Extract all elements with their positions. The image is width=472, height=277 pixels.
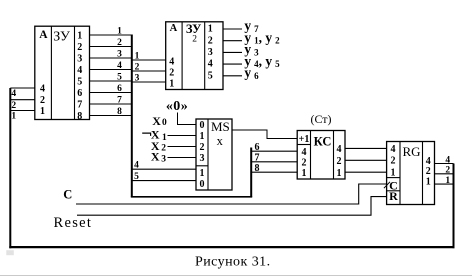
svg-text:R: R [389,189,398,203]
ZU2 right pin labels 1-5 [208,24,213,82]
ZU2 left pin labels 4,2,1 [169,57,174,90]
ZU1 address input wire 1 [10,110,35,112]
ZU2 output wire 5 [223,75,242,77]
multiplexer MS body [196,119,232,190]
feedback bus bottom horizontal [9,246,454,248]
svg-text:8: 8 [255,163,260,174]
svg-text:4: 4 [391,144,396,155]
svg-text:4: 4 [134,161,139,171]
svg-text:2: 2 [135,62,140,72]
output labels y [244,18,280,81]
svg-text:5: 5 [77,76,82,87]
combinational block KC body [297,131,345,180]
svg-text:3: 3 [117,49,122,59]
input label X2 [151,139,166,153]
ZU1 output wire 7 [90,103,132,105]
svg-text:A: A [170,23,178,34]
svg-text:0: 0 [162,118,167,128]
ZU1 left pin labels 4,2,1 [40,83,45,117]
svg-text:1: 1 [302,168,307,179]
input label X3 [151,150,166,165]
svg-text:2: 2 [337,156,342,167]
svg-text:ЗУ: ЗУ [186,22,201,36]
register RG body [387,142,435,205]
svg-text:1: 1 [337,168,342,179]
ZU1 input wire labels 4,2,1 [11,89,16,122]
RG output wire 1 [435,183,454,185]
svg-text:1: 1 [426,177,431,188]
svg-text:2: 2 [208,35,213,46]
MS label [211,119,230,148]
svg-text:«0»: «0» [166,99,188,114]
svg-text:1: 1 [77,30,82,41]
ZU1 output wire labels 1-8 [117,26,122,117]
input label not X1 [142,128,167,143]
svg-text:1: 1 [11,112,16,122]
svg-text:0: 0 [200,179,205,190]
ZU2 output wire 2 [223,40,242,42]
RG left pin labels 4,2,1 [391,144,396,179]
svg-text:Рисунок 31.: Рисунок 31. [195,255,271,270]
svg-text:0: 0 [200,120,205,131]
svg-text:3: 3 [135,73,140,83]
svg-text:1: 1 [208,24,213,35]
ZU1 output wire 2 [90,46,132,48]
KC left pin labels 4,2,1 [302,147,307,179]
bus vertical before KC [250,148,252,197]
svg-text:1: 1 [200,131,205,142]
svg-text:3: 3 [208,47,213,58]
ZU1 output wire 6 [90,92,132,94]
svg-text:1: 1 [391,168,396,179]
svg-text:4: 4 [337,144,342,155]
svg-text:2: 2 [161,143,166,153]
svg-text:4: 4 [40,83,45,94]
ZU1 output wire 5 [90,80,132,82]
RG output wire 4 [435,163,454,165]
svg-text:+1: +1 [299,134,310,145]
ZU1 output wire 1 [90,34,132,36]
svg-text:5: 5 [117,72,122,82]
svg-text:2: 2 [77,42,82,53]
svg-text:X: X [151,150,160,164]
ZU1 address input wire 4 [10,87,35,89]
svg-text:2: 2 [200,142,205,153]
ZU1 address input wire 2 [10,99,35,101]
ZU1 right pin labels 1-8 [77,30,82,122]
svg-text:4: 4 [117,61,122,71]
svg-text:2: 2 [445,166,450,176]
bus vertical after ZU1 [131,35,133,197]
svg-text:3: 3 [161,155,166,165]
svg-text:2: 2 [192,35,197,45]
svg-text:1: 1 [135,51,140,61]
input wire X2 [168,146,197,148]
svg-text:5: 5 [134,172,139,182]
constant zero wire [178,113,197,125]
svg-text:6: 6 [117,84,122,94]
svg-text:1: 1 [445,176,450,186]
select wire 4 [132,168,196,170]
svg-text:2: 2 [11,101,16,111]
KC output wire 1 [345,171,387,173]
svg-text:2: 2 [40,95,45,106]
RG C dynamic input slash [384,182,390,188]
svg-text:4: 4 [11,89,16,99]
MS data pin labels 0,1,2,3 [200,120,205,164]
svg-text:4: 4 [445,155,450,165]
ZU1 output wire 3 [90,57,132,59]
svg-text:КС: КС [314,135,332,149]
svg-text:6: 6 [77,88,82,99]
feedback bus left vertical [9,88,11,248]
svg-text:4: 4 [77,65,82,76]
svg-text:(Ст): (Ст) [310,112,331,126]
svg-text:Reset: Reset [54,215,93,231]
RG output wire 2 [435,173,454,175]
ZU1 output wire 4 [90,69,132,71]
ZU2 output wire 1 [223,28,242,30]
svg-text:4: 4 [208,59,213,70]
ZU2 input wire 3 [132,81,166,83]
svg-text:3: 3 [200,153,205,164]
ZU2 label ZU2 [186,22,201,45]
svg-text:ЗУ: ЗУ [53,30,70,45]
RG right pin labels 4,2,1 [426,156,431,188]
svg-text:x: x [217,134,224,148]
svg-text:4: 4 [169,57,174,68]
svg-text:2: 2 [169,68,174,79]
ZU2 output wire 3 [223,51,242,53]
KC input wire 8 [251,171,297,173]
svg-text:1: 1 [169,79,174,90]
input wire not X1 [168,135,197,137]
svg-text:MS: MS [211,119,230,134]
svg-text:1: 1 [117,26,122,36]
KC output wire 2 [345,159,387,161]
svg-text:C: C [63,187,72,201]
ZU1 output wire 8 [90,115,132,117]
ZU2 input wire 1 [132,59,166,61]
svg-text:1: 1 [162,133,167,143]
KC input wire 7 [251,161,297,163]
svg-text:2: 2 [117,38,122,48]
clock wire C [76,184,387,204]
svg-text:2: 2 [391,156,396,167]
svg-text:7: 7 [117,95,122,105]
feedback bus right vertical [453,164,455,249]
svg-text:A: A [39,29,48,41]
svg-text:1: 1 [40,106,45,117]
svg-text:X: X [152,114,161,128]
svg-text:6: 6 [255,142,260,153]
svg-text:4: 4 [302,147,307,158]
svg-text:2: 2 [302,157,307,168]
svg-text:7: 7 [77,99,82,110]
input label X0 [152,114,167,128]
MS select pin labels 1,0 [200,168,205,190]
ZU2 output wire 4 [223,63,242,65]
svg-text:1: 1 [200,168,205,179]
KC input wire labels 6,7,8 [255,142,260,174]
svg-text:RG: RG [402,144,420,159]
reset wire [77,197,387,216]
MS output wire to KC [232,130,297,139]
svg-text:7: 7 [255,153,260,164]
ZU2 input wire 2 [132,70,166,72]
memory unit ZU1 body [35,26,90,119]
KC right pin labels 4,2,1 [337,144,342,179]
RG output wire labels 4,2,1 [445,155,450,186]
bus bottom horizontal [131,196,252,198]
KC input wire 6 [251,150,297,152]
svg-text:8: 8 [77,111,82,122]
ZU2 input wire labels 1,2,3 [135,51,140,83]
KC output wire 4 [345,147,387,149]
memory unit ZU2 body [166,22,223,90]
select wire 5 [132,180,196,182]
input wire X3 [168,157,197,159]
svg-text:5: 5 [208,70,213,81]
svg-text:3: 3 [77,53,82,64]
svg-text:8: 8 [117,107,122,117]
